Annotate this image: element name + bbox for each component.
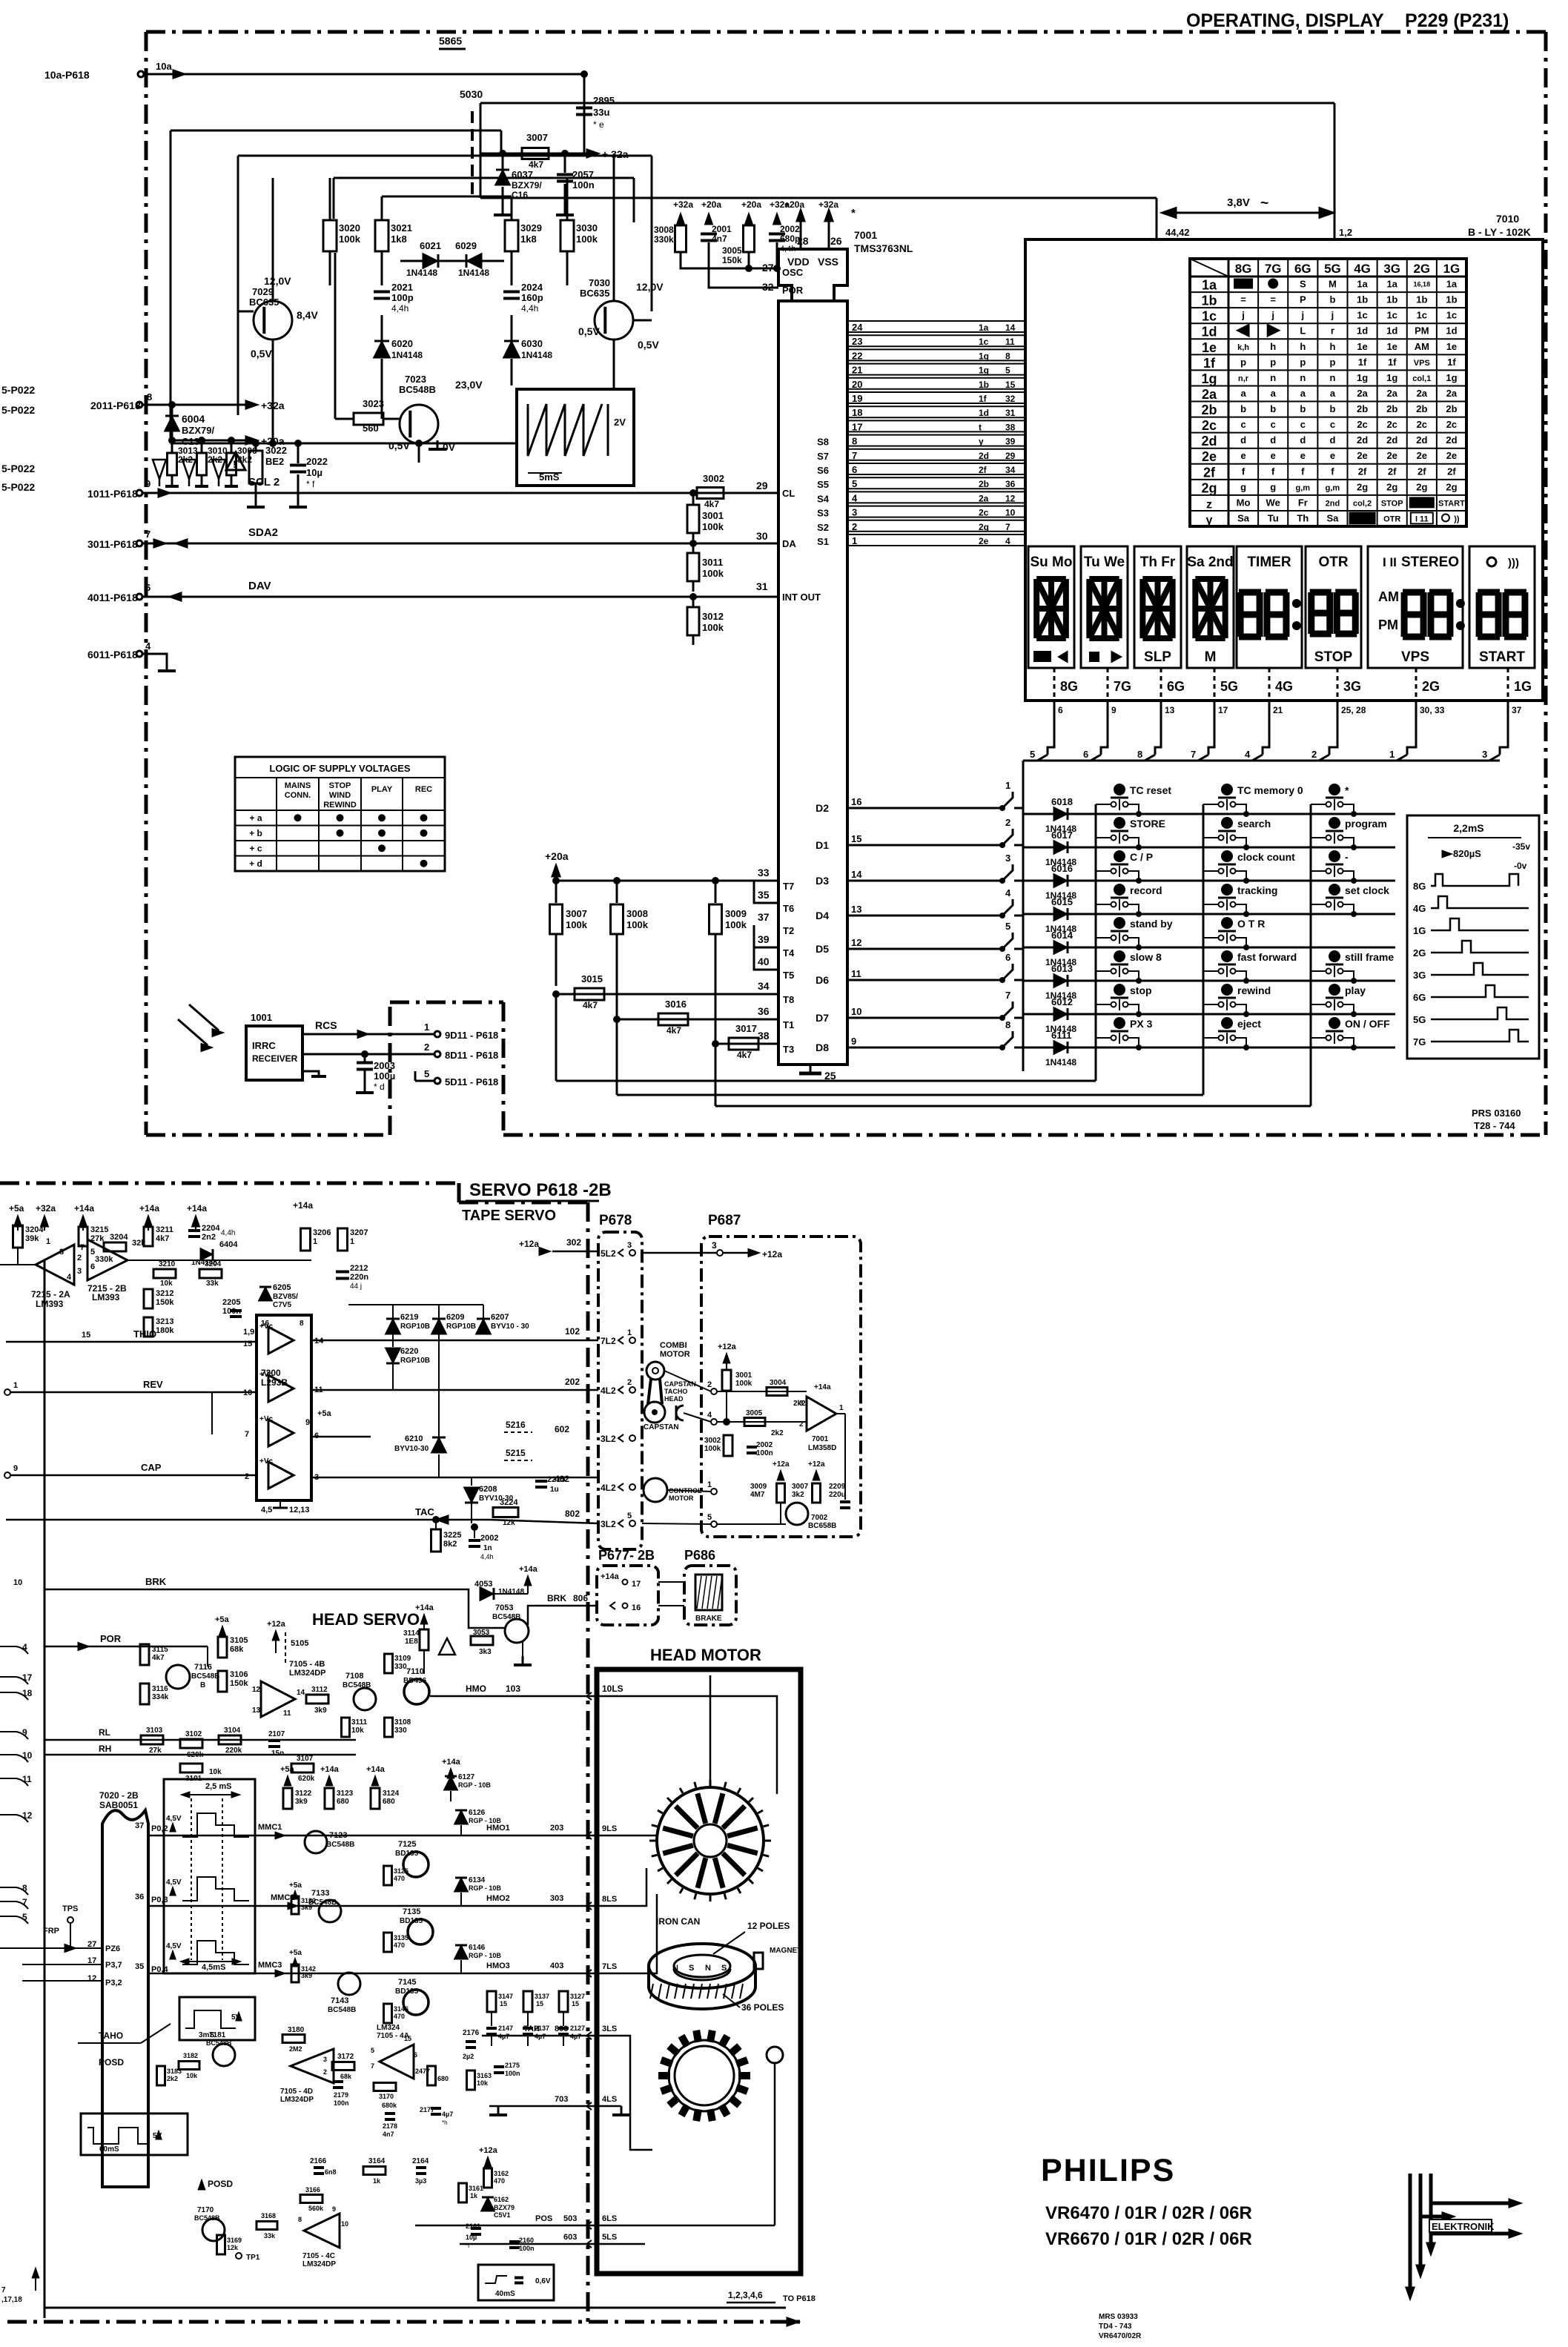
svg-text:BC548B: BC548B <box>191 1672 219 1681</box>
svg-text:2002: 2002 <box>780 224 800 234</box>
svg-text:T4: T4 <box>783 947 795 959</box>
svg-text:2b: 2b <box>1416 403 1427 414</box>
svg-text:3170: 3170 <box>379 2093 394 2100</box>
svg-text:OSC: OSC <box>782 267 804 278</box>
svg-text:RGP - 10B: RGP - 10B <box>469 1884 501 1892</box>
svg-text:2n2: 2n2 <box>202 1233 216 1242</box>
svg-text:S2: S2 <box>817 522 829 533</box>
svg-text:+ d: + d <box>249 858 262 869</box>
svg-text:3115: 3115 <box>152 1646 168 1654</box>
svg-text:p: p <box>1270 357 1276 368</box>
svg-text:1d: 1d <box>1201 325 1217 340</box>
svg-text:203: 203 <box>550 1824 563 1833</box>
svg-text:6127: 6127 <box>458 1773 475 1781</box>
svg-text:3004: 3004 <box>770 1379 787 1387</box>
svg-text:10k: 10k <box>160 1280 173 1288</box>
svg-text:10a: 10a <box>156 61 172 72</box>
svg-text:3007: 3007 <box>566 908 587 919</box>
svg-text:603: 603 <box>563 2233 577 2242</box>
svg-text:t: t <box>979 422 982 432</box>
svg-text:7181: 7181 <box>209 2031 226 2039</box>
svg-text:+14a: +14a <box>442 1758 461 1767</box>
svg-text:7001: 7001 <box>812 1435 829 1443</box>
svg-text:2d: 2d <box>1386 434 1397 446</box>
svg-text:* e: * e <box>593 119 604 130</box>
svg-text:Sa: Sa <box>1326 512 1339 523</box>
svg-text:11: 11 <box>851 968 861 979</box>
svg-text:8,4V: 8,4V <box>297 309 318 321</box>
svg-text:1e: 1e <box>1386 341 1397 352</box>
svg-text:2107: 2107 <box>268 1730 285 1738</box>
svg-text:4L2: 4L2 <box>601 1483 616 1493</box>
svg-text:D2: D2 <box>816 802 829 814</box>
svg-text:2: 2 <box>424 1042 429 1053</box>
svg-text:330k: 330k <box>654 234 674 245</box>
svg-text:RGP10B: RGP10B <box>400 1323 430 1331</box>
svg-text:y: y <box>979 437 984 447</box>
svg-text:0,6V: 0,6V <box>535 2277 551 2285</box>
svg-text:7143: 7143 <box>331 1996 348 2005</box>
svg-text:b: b <box>1270 403 1276 414</box>
svg-text:620k: 620k <box>298 1775 315 1783</box>
svg-text:IRON CAN: IRON CAN <box>656 1916 700 1927</box>
svg-text:44 j: 44 j <box>350 1282 362 1291</box>
svg-text:D5: D5 <box>816 943 829 955</box>
svg-text:k,h: k,h <box>1237 343 1249 352</box>
svg-text:8LS: 8LS <box>602 1895 617 1904</box>
svg-text:2nd: 2nd <box>1326 499 1340 508</box>
svg-text:+12a: +12a <box>808 1460 825 1469</box>
svg-text:7L2: 7L2 <box>601 1336 616 1346</box>
svg-text:VDD: VDD <box>787 256 810 268</box>
svg-text:I 11: I 11 <box>1415 514 1429 523</box>
svg-text:7010: 7010 <box>1496 213 1519 225</box>
svg-text:100k: 100k <box>339 234 361 245</box>
svg-text:39k: 39k <box>25 1234 39 1243</box>
svg-text:BC548B: BC548B <box>399 384 436 395</box>
svg-text:36: 36 <box>135 1893 144 1901</box>
svg-text:I II: I II <box>1383 555 1397 569</box>
svg-text:Fr: Fr <box>1298 497 1308 508</box>
svg-text:AM: AM <box>1415 341 1429 352</box>
svg-text:+ c: + c <box>249 843 262 853</box>
svg-text:13: 13 <box>851 904 861 915</box>
svg-text:1g: 1g <box>1357 372 1368 383</box>
svg-text:3137: 3137 <box>535 1993 549 2000</box>
svg-text:r: r <box>1331 325 1334 337</box>
svg-text:100k: 100k <box>576 234 598 245</box>
svg-text:3135: 3135 <box>394 1934 408 1942</box>
svg-text:8k2: 8k2 <box>237 454 252 465</box>
svg-text:3224: 3224 <box>500 1498 518 1507</box>
svg-text:14: 14 <box>851 869 862 880</box>
svg-text:40mS: 40mS <box>495 2290 515 2298</box>
svg-text:2e: 2e <box>1202 449 1217 464</box>
svg-text:3016: 3016 <box>665 999 687 1010</box>
svg-text:+20a: +20a <box>261 435 285 447</box>
svg-text:7G: 7G <box>1265 262 1282 276</box>
svg-text:680: 680 <box>337 1798 349 1806</box>
svg-text:D4: D4 <box>816 910 829 921</box>
svg-text:1d: 1d <box>1446 325 1457 337</box>
svg-text:27k: 27k <box>90 1234 105 1243</box>
svg-text:=: = <box>1240 294 1246 305</box>
svg-text:12: 12 <box>87 1974 96 1983</box>
svg-text:CAPSTAN: CAPSTAN <box>664 1380 696 1388</box>
svg-text:~: ~ <box>1260 196 1268 211</box>
svg-text:3111: 3111 <box>351 1718 368 1727</box>
svg-text:3204: 3204 <box>205 1260 222 1268</box>
svg-text:6G: 6G <box>1167 679 1185 694</box>
svg-text:560: 560 <box>363 423 379 434</box>
svg-text:6210: 6210 <box>405 1434 423 1443</box>
svg-text:f: f <box>1242 466 1246 477</box>
svg-text:40: 40 <box>758 956 770 967</box>
svg-text:3021: 3021 <box>391 222 412 234</box>
svg-text:2c: 2c <box>1417 419 1427 430</box>
svg-text:1,2,3,4,6: 1,2,3,4,6 <box>728 2290 763 2300</box>
svg-text:Sa 2nd: Sa 2nd <box>1187 555 1233 570</box>
svg-text:6: 6 <box>1058 705 1063 715</box>
svg-text:BYV10-30: BYV10-30 <box>394 1445 429 1453</box>
svg-text:100n: 100n <box>756 1449 773 1457</box>
svg-text:1u: 1u <box>550 1486 559 1494</box>
svg-text:+32a: +32a <box>770 199 790 210</box>
svg-text:2a: 2a <box>1357 388 1368 399</box>
svg-text:33k: 33k <box>206 1280 219 1288</box>
svg-text:68k: 68k <box>340 2073 352 2080</box>
svg-text:1g: 1g <box>979 365 989 376</box>
svg-text:VPS: VPS <box>1401 649 1429 665</box>
svg-text:2f: 2f <box>979 465 988 475</box>
svg-text:3029: 3029 <box>520 222 542 234</box>
svg-text:g: g <box>1270 481 1276 492</box>
svg-text:10k: 10k <box>351 1727 364 1735</box>
svg-text:+20a: +20a <box>741 199 761 210</box>
svg-text:2c: 2c <box>1202 418 1217 433</box>
svg-text:334k: 334k <box>152 1693 169 1701</box>
svg-text:2c: 2c <box>1357 419 1367 430</box>
svg-text:b: b <box>1329 403 1335 414</box>
svg-text:ON / OFF: ON / OFF <box>1345 1018 1390 1030</box>
svg-text:d: d <box>1300 434 1306 446</box>
svg-text:2: 2 <box>852 521 857 532</box>
svg-text:103: 103 <box>506 1684 520 1694</box>
svg-text:1e: 1e <box>1446 341 1457 352</box>
svg-text:c: c <box>1240 419 1246 430</box>
svg-text:1001: 1001 <box>251 1012 272 1023</box>
svg-text:BC635: BC635 <box>580 288 609 299</box>
svg-text:p: p <box>1329 357 1335 368</box>
svg-text:2f: 2f <box>1203 465 1216 480</box>
svg-text:OTR: OTR <box>1318 555 1348 570</box>
svg-text:12: 12 <box>851 937 861 948</box>
svg-text:5215: 5215 <box>506 1448 526 1458</box>
svg-text:4k7: 4k7 <box>529 159 543 170</box>
svg-text:7: 7 <box>1191 749 1196 760</box>
svg-text:150k: 150k <box>156 1298 174 1307</box>
svg-text:1k: 1k <box>470 2192 478 2199</box>
svg-text:3109: 3109 <box>394 1655 411 1663</box>
svg-text:8: 8 <box>147 391 152 403</box>
svg-text:35: 35 <box>135 1962 144 1971</box>
svg-text:TIMER: TIMER <box>1247 555 1291 570</box>
svg-text:2002: 2002 <box>480 1534 498 1543</box>
svg-text:1b: 1b <box>1416 294 1427 305</box>
svg-text:MMC1: MMC1 <box>258 1823 282 1832</box>
svg-text:2212: 2212 <box>350 1264 368 1273</box>
svg-text:e: e <box>1330 450 1335 461</box>
svg-text:RH: RH <box>99 1744 111 1754</box>
svg-text:3225: 3225 <box>443 1531 461 1540</box>
svg-text:D1: D1 <box>816 839 829 851</box>
svg-text:HMO: HMO <box>466 1684 486 1694</box>
svg-text:34: 34 <box>1005 465 1016 475</box>
svg-text:180k: 180k <box>156 1326 174 1335</box>
svg-text:p: p <box>1300 357 1306 368</box>
svg-text:6029: 6029 <box>455 240 477 251</box>
svg-text:4n7: 4n7 <box>712 234 727 244</box>
svg-text:BC658B: BC658B <box>808 1522 836 1530</box>
svg-text:9: 9 <box>145 478 150 489</box>
svg-text:3124: 3124 <box>383 1790 400 1798</box>
svg-text:680p: 680p <box>780 234 800 244</box>
svg-text:6015: 6015 <box>1051 896 1073 907</box>
svg-text:7: 7 <box>371 2062 374 2070</box>
svg-text:))): ))) <box>1508 557 1519 569</box>
svg-text:VR6470/02R: VR6470/02R <box>1099 2332 1142 2340</box>
svg-text:60mS: 60mS <box>99 2145 119 2154</box>
svg-text:+Vc: +Vc <box>259 1371 274 1379</box>
svg-text:col,2: col,2 <box>1353 499 1372 508</box>
svg-text:6404: 6404 <box>219 1240 238 1249</box>
svg-text:BZX79/: BZX79/ <box>182 425 214 436</box>
svg-text:B: B <box>200 1681 205 1689</box>
svg-text:3015: 3015 <box>581 973 603 984</box>
svg-text:3204: 3204 <box>25 1225 44 1234</box>
svg-text:16: 16 <box>632 1603 641 1612</box>
svg-text:100µ: 100µ <box>374 1070 395 1082</box>
svg-text:802: 802 <box>565 1509 580 1519</box>
svg-text:,17,18: ,17,18 <box>1 2296 22 2304</box>
svg-text:+12a: +12a <box>718 1343 737 1351</box>
svg-text:100k: 100k <box>626 919 649 930</box>
svg-text:8: 8 <box>852 436 857 447</box>
svg-text:a: a <box>1240 388 1246 399</box>
svg-text:33u: 33u <box>593 107 609 118</box>
svg-text:2V: 2V <box>614 417 626 428</box>
svg-text:5865: 5865 <box>439 35 462 47</box>
svg-text:2g: 2g <box>1416 481 1427 492</box>
svg-text:12k: 12k <box>227 2244 239 2251</box>
svg-text:1: 1 <box>627 1328 632 1337</box>
svg-text:REC: REC <box>415 785 432 794</box>
svg-text:7030: 7030 <box>589 277 610 288</box>
svg-text:6209: 6209 <box>446 1313 464 1322</box>
svg-text:2: 2 <box>627 1378 632 1387</box>
svg-text:6037: 6037 <box>512 169 533 180</box>
svg-text:)): )) <box>1454 514 1460 523</box>
svg-text:6016: 6016 <box>1051 863 1073 874</box>
svg-text:+32a: +32a <box>261 400 285 411</box>
svg-text:7125: 7125 <box>398 1840 416 1849</box>
svg-text:2: 2 <box>799 1420 804 1429</box>
svg-text:ELEKTRONIK: ELEKTRONIK <box>1432 2221 1495 2232</box>
svg-text:37: 37 <box>758 911 770 923</box>
svg-text:21: 21 <box>1273 705 1283 715</box>
svg-text:7108: 7108 <box>345 1672 363 1681</box>
svg-text:+14a: +14a <box>601 1572 620 1581</box>
svg-text:*: * <box>851 207 856 219</box>
svg-text:S7: S7 <box>817 451 829 462</box>
svg-text:8: 8 <box>298 2216 302 2223</box>
svg-text:c: c <box>1271 419 1276 430</box>
svg-text:program: program <box>1345 818 1387 830</box>
svg-text:e: e <box>1300 450 1306 461</box>
svg-text:6205: 6205 <box>273 1283 291 1292</box>
svg-text:1G: 1G <box>1413 925 1426 936</box>
svg-text:100k: 100k <box>704 1445 721 1453</box>
svg-text:7105 - 4C: 7105 - 4C <box>302 2252 335 2260</box>
svg-text:BE2: BE2 <box>265 456 284 467</box>
svg-text:TAHO: TAHO <box>99 2030 123 2041</box>
svg-text:5-P022: 5-P022 <box>1 384 35 396</box>
svg-text:h: h <box>1300 341 1306 352</box>
svg-text:3166: 3166 <box>305 2186 320 2194</box>
svg-text:10: 10 <box>1005 508 1016 518</box>
svg-text:6111: 6111 <box>1051 1030 1072 1041</box>
svg-text:MOTOR: MOTOR <box>660 1350 690 1359</box>
svg-text:-0v: -0v <box>1514 861 1527 871</box>
svg-text:17: 17 <box>22 1672 33 1683</box>
svg-text:TACHO: TACHO <box>664 1388 687 1395</box>
svg-text:2127: 2127 <box>570 2025 585 2032</box>
svg-text:1N4148: 1N4148 <box>406 268 437 278</box>
svg-text:100k: 100k <box>702 622 724 633</box>
svg-text:1,9: 1,9 <box>243 1328 254 1337</box>
svg-text:3107: 3107 <box>297 1755 314 1763</box>
svg-text:7029: 7029 <box>252 286 274 297</box>
svg-text:1a: 1a <box>1446 279 1458 290</box>
svg-text:14: 14 <box>297 1689 305 1697</box>
svg-text:220u: 220u <box>829 1491 846 1499</box>
svg-text:17: 17 <box>1218 705 1228 715</box>
svg-text:1: 1 <box>707 1480 712 1489</box>
svg-text:D7: D7 <box>816 1012 829 1024</box>
svg-text:4011-P618: 4011-P618 <box>87 592 138 603</box>
svg-text:4k7: 4k7 <box>152 1654 165 1662</box>
svg-text:1g: 1g <box>1386 372 1397 383</box>
svg-text:19: 19 <box>852 393 862 404</box>
svg-text:3001: 3001 <box>702 510 724 521</box>
svg-text:15: 15 <box>851 833 861 844</box>
svg-text:8: 8 <box>1137 749 1142 760</box>
svg-text:3204: 3204 <box>110 1233 128 1242</box>
svg-text:2c: 2c <box>1386 419 1397 430</box>
svg-text:+5a: +5a <box>289 1949 302 1957</box>
svg-text:100n: 100n <box>222 1307 241 1316</box>
svg-text:3007: 3007 <box>526 132 548 143</box>
svg-text:STEREO: STEREO <box>1401 555 1459 570</box>
svg-text:CONN.: CONN. <box>285 791 311 800</box>
svg-text:play: play <box>1345 984 1366 996</box>
svg-text:2160: 2160 <box>519 2237 534 2244</box>
svg-text:HEAD SERVO: HEAD SERVO <box>312 1610 420 1629</box>
svg-text:T7: T7 <box>783 881 794 892</box>
svg-text:10k: 10k <box>209 1768 222 1776</box>
svg-text:1d: 1d <box>979 408 989 418</box>
svg-text:c: c <box>1300 419 1306 430</box>
svg-text:10: 10 <box>22 1750 33 1761</box>
svg-text:3207: 3207 <box>350 1228 368 1237</box>
svg-text:2f: 2f <box>1388 466 1397 477</box>
svg-text:100k: 100k <box>702 521 724 532</box>
svg-text:9: 9 <box>1111 705 1117 715</box>
svg-text:f: f <box>1301 466 1305 477</box>
svg-text:Sa: Sa <box>1237 512 1250 523</box>
svg-text:36: 36 <box>1005 479 1016 489</box>
svg-text:3005: 3005 <box>746 1409 763 1417</box>
svg-text:3008: 3008 <box>654 225 674 235</box>
svg-text:7LS: 7LS <box>602 1962 617 1971</box>
svg-text:3: 3 <box>1005 853 1010 864</box>
svg-text:2b: 2b <box>979 479 989 489</box>
svg-text:3146: 3146 <box>394 2005 408 2013</box>
svg-text:BC635: BC635 <box>249 297 279 308</box>
svg-text:6220: 6220 <box>400 1347 418 1356</box>
svg-text:1f: 1f <box>1203 356 1216 371</box>
svg-text:search: search <box>1237 818 1271 830</box>
svg-text:S5: S5 <box>817 479 829 490</box>
svg-text:+5a: +5a <box>215 1615 230 1624</box>
svg-text:+14a: +14a <box>139 1203 159 1214</box>
svg-text:S1: S1 <box>817 536 829 547</box>
svg-text:806: 806 <box>573 1593 588 1603</box>
svg-text:RGP10B: RGP10B <box>400 1357 430 1365</box>
svg-text:LM324: LM324 <box>377 2024 400 2032</box>
svg-text:0,5V: 0,5V <box>388 440 410 451</box>
svg-text:5-P022: 5-P022 <box>1 404 35 416</box>
svg-text:7002: 7002 <box>811 1514 828 1522</box>
svg-text:BD436: BD436 <box>403 1677 427 1685</box>
svg-text:5G: 5G <box>1324 262 1341 276</box>
svg-text:HMO3: HMO3 <box>486 1962 510 1970</box>
svg-text:1k8: 1k8 <box>391 234 407 245</box>
svg-text:6017: 6017 <box>1051 830 1073 841</box>
svg-text:2g: 2g <box>1446 481 1457 492</box>
svg-text:TMS3763NL: TMS3763NL <box>854 242 913 254</box>
svg-text:10k: 10k <box>477 2079 489 2087</box>
svg-text:+12a: +12a <box>479 2146 498 2155</box>
svg-text:6LS: 6LS <box>602 2214 617 2223</box>
svg-text:39: 39 <box>1005 437 1016 447</box>
svg-text:BYV10 - 30: BYV10 - 30 <box>491 1323 529 1331</box>
svg-text:5: 5 <box>1005 921 1010 932</box>
svg-text:1N4148: 1N4148 <box>1045 1057 1076 1067</box>
svg-text:4: 4 <box>1005 536 1010 546</box>
svg-text:S8: S8 <box>817 437 829 448</box>
svg-text:2d: 2d <box>1416 434 1427 446</box>
svg-text:3G: 3G <box>1413 970 1426 981</box>
svg-text:5216: 5216 <box>506 1420 526 1430</box>
svg-text:3017: 3017 <box>735 1023 757 1034</box>
svg-text:1a: 1a <box>1202 278 1217 293</box>
svg-text:3002: 3002 <box>703 473 724 484</box>
svg-text:STOP: STOP <box>1314 649 1353 665</box>
svg-text:RCS: RCS <box>315 1019 337 1031</box>
svg-text:10µ: 10µ <box>466 2234 477 2241</box>
svg-text:3,8V: 3,8V <box>1227 196 1250 209</box>
